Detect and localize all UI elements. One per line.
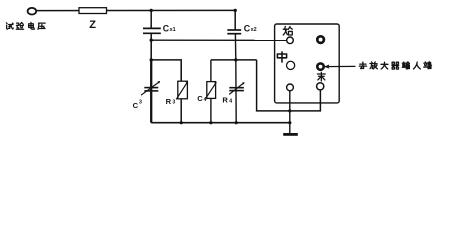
wire: right arm top connector [211,59,257,61]
variable capacitor C3 [141,60,160,123]
svg-text:4: 4 [204,97,207,103]
terminal 末 [317,83,324,90]
variable resistor R3 [176,81,188,123]
大 [381,62,388,69]
wire: amplifier lead [324,65,356,67]
wire: bottom rail [151,122,290,124]
capacitor Cx1 [143,10,161,40]
variable capacitor R4 [229,60,244,123]
terminal to amplifier [317,63,323,69]
junction: bottom rail at ground drop [288,121,291,124]
压 [38,23,45,29]
放 [370,62,377,69]
variable resistor C4 [206,60,217,123]
arrowhead at amplifier terminal [324,64,329,68]
terminal bottom-left (grounded) [287,84,294,91]
电 [29,22,35,29]
label 去放大器输入端 [359,62,431,69]
器 [392,62,399,69]
入 [413,62,420,69]
svg-text:x1: x1 [170,27,176,33]
svg-text:x2: x2 [251,27,257,33]
junction: bottom rail C4 [209,121,212,124]
wire: right arm drop to lower rail [257,60,321,111]
svg-text:R: R [222,96,228,105]
试 [6,23,13,29]
wire: top rail from source to Cx2 [36,9,235,11]
terminal top-right [317,36,324,43]
terminal 中 [287,61,295,69]
端 [424,62,432,69]
junction: bottom rail R3 [180,121,183,124]
验 [16,22,23,29]
terminal box (winding tap selector 始/中/末) [275,24,340,103]
svg-text:4: 4 [229,98,232,104]
label 试验电压 [6,22,45,29]
junction: top rail end at Cx2 [234,9,237,12]
resistor Z [79,8,107,14]
junction: top rail at Cx1 [150,9,153,12]
terminal: test-voltage input [28,8,37,15]
svg-text:Z: Z [89,19,96,31]
junction: left arm at C3 [150,58,153,61]
wire: ground drop from terminal box [289,91,291,134]
svg-text:3: 3 [139,99,142,105]
去 [359,62,366,68]
label 末 [317,72,325,81]
terminal 始 [287,37,294,44]
junction: lower rail at ground drop [288,109,291,112]
svg-text:C: C [197,94,203,103]
junction: rail at Cx1 branch [150,38,153,41]
输 [402,62,409,69]
wire: detection rail from Cx1 bottom to terminal 始 [151,39,287,41]
svg-text:3: 3 [172,100,175,106]
svg-text:C: C [133,101,139,110]
label 中 [277,52,286,62]
svg-text:R: R [166,97,172,106]
wire: left arm top connector [151,40,181,81]
label 始 [283,26,292,35]
capacitor Cx2 [227,10,241,60]
ground [283,133,298,136]
junction: bottom rail R4 [235,121,238,124]
junction: right arm at Cx2/R4 [234,58,237,61]
